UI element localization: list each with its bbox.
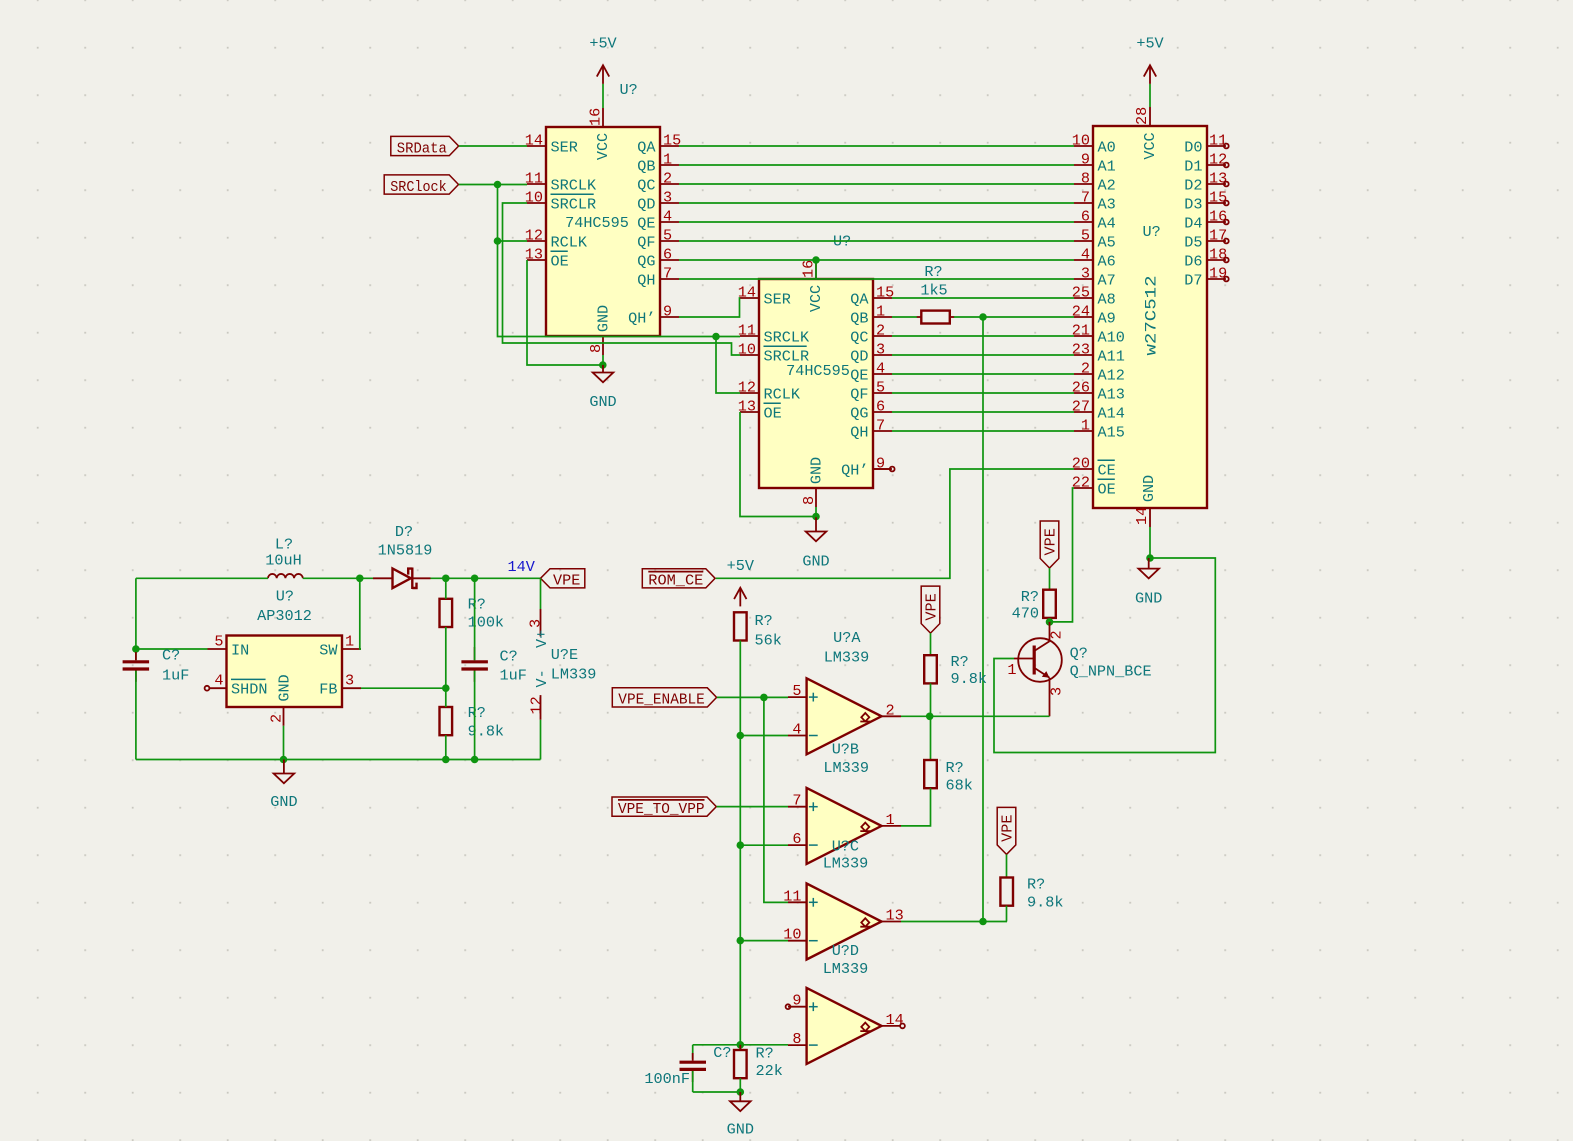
svg-text:A15: A15 <box>1098 423 1125 441</box>
svg-text:1: 1 <box>663 151 672 169</box>
svg-text:QE: QE <box>850 366 868 384</box>
svg-text:4: 4 <box>214 672 223 690</box>
wire branch to U?C + <box>764 697 788 902</box>
wire Cout bottom <box>474 671 476 760</box>
svg-text:C?: C? <box>713 1044 731 1062</box>
net label VPE (RB) <box>997 807 1017 854</box>
svg-text:VCC: VCC <box>594 133 612 160</box>
power +5V R56k top <box>727 557 755 606</box>
svg-text:20: 20 <box>1072 455 1090 473</box>
svg-text:D1: D1 <box>1184 157 1202 175</box>
junction A9 node <box>979 313 987 321</box>
svg-text:C?: C? <box>500 648 518 666</box>
svg-text:10: 10 <box>738 341 756 359</box>
wire R22k leads <box>739 1045 741 1092</box>
svg-text:3: 3 <box>1048 687 1066 696</box>
svg-text:LM339: LM339 <box>823 759 869 777</box>
svg-text:U?D: U?D <box>832 942 859 960</box>
svg-text:Q?: Q? <box>1070 645 1088 663</box>
svg-text:1: 1 <box>345 633 354 651</box>
svg-text:3: 3 <box>1081 265 1090 283</box>
svg-text:QF: QF <box>850 385 868 403</box>
svg-text:14: 14 <box>1133 507 1151 525</box>
svg-text:A9: A9 <box>1098 309 1116 327</box>
svg-text:VPE: VPE <box>999 815 1017 842</box>
wire cap to R22k gnd <box>693 1091 741 1093</box>
svg-text:R?: R? <box>946 759 964 777</box>
wire A3 bus <box>679 202 1074 204</box>
net label VPE_TO_VPP <box>612 797 716 818</box>
junction RCLK branch <box>494 237 502 245</box>
svg-text:25: 25 <box>1072 284 1090 302</box>
junction emitter node <box>926 713 934 721</box>
svg-text:QA: QA <box>637 138 656 156</box>
svg-text:5: 5 <box>876 379 885 397</box>
capacitor C? 1uF (output) <box>461 647 526 685</box>
wire RCLK U1 <box>498 240 528 242</box>
svg-text:D5: D5 <box>1184 233 1202 251</box>
ground R22k GND <box>727 1092 754 1139</box>
svg-text:D0: D0 <box>1184 138 1202 156</box>
wire diode out <box>431 577 541 579</box>
svg-text:VCC: VCC <box>807 285 825 312</box>
resistor R? 9.8k L <box>440 704 505 741</box>
svg-text:3: 3 <box>527 619 545 628</box>
svg-text:12: 12 <box>525 227 543 245</box>
U2 QH' no-connect <box>873 467 895 472</box>
svg-text:R?: R? <box>755 612 773 630</box>
svg-text:7: 7 <box>876 417 885 435</box>
svg-text:SRCLK: SRCLK <box>764 328 810 346</box>
net label VPE (RA) <box>921 586 941 633</box>
wire L to diode <box>303 577 373 579</box>
net label SRClock <box>384 175 458 196</box>
svg-text:R?: R? <box>756 1045 774 1063</box>
svg-text:OE: OE <box>1098 480 1116 498</box>
svg-text:SER: SER <box>551 138 578 156</box>
wire A12 bus <box>892 373 1074 375</box>
wire AP GND stub <box>283 726 285 760</box>
svg-text:RCLK: RCLK <box>551 233 588 251</box>
svg-text:1uF: 1uF <box>162 667 189 685</box>
svg-text:1: 1 <box>1081 417 1090 435</box>
svg-text:10: 10 <box>525 189 543 207</box>
svg-text:ROM_CE: ROM_CE <box>648 572 703 590</box>
svg-text:SHDN: SHDN <box>231 681 267 699</box>
svg-text:A1: A1 <box>1098 157 1116 175</box>
svg-text:14: 14 <box>738 284 756 302</box>
wire VPE_TO_VPP to + <box>717 806 788 808</box>
junction T3 minus <box>737 937 745 945</box>
svg-text:QC: QC <box>637 176 655 194</box>
svg-text:C?: C? <box>162 647 180 665</box>
wire A6 bus <box>679 259 1074 261</box>
svg-text:SRCLR: SRCLR <box>551 195 597 213</box>
svg-text:9: 9 <box>1081 151 1090 169</box>
junction FB node <box>442 684 450 692</box>
junction C top <box>471 575 479 583</box>
ground AP3012 GND <box>270 760 297 812</box>
svg-text:8: 8 <box>587 344 605 353</box>
wire ROM VCC <box>1149 84 1151 107</box>
svg-text:SRClock: SRClock <box>390 178 447 196</box>
svg-text:IN: IN <box>231 641 249 659</box>
svg-text:6: 6 <box>792 830 801 848</box>
svg-text:9.8k: 9.8k <box>951 670 987 688</box>
svg-text:2: 2 <box>1081 360 1090 378</box>
junction U2 VCC tap <box>812 256 820 264</box>
svg-text:2: 2 <box>876 322 885 340</box>
wire U1 VCC <box>602 84 604 108</box>
wire R9.8kB to out D <box>1006 906 1008 922</box>
svg-text:V-: V- <box>533 669 551 687</box>
junction T1 minus <box>737 732 745 740</box>
wire SRCLK chain down <box>498 185 741 337</box>
svg-text:5: 5 <box>792 682 801 700</box>
wire R9.8kL bot <box>445 735 447 759</box>
svg-text:AP3012: AP3012 <box>257 607 312 625</box>
wire A7 bus <box>679 278 1074 280</box>
wire U2 VCC stub <box>815 260 817 279</box>
svg-text:6: 6 <box>663 246 672 264</box>
wire R1k5 to ROM A9 <box>954 316 1074 318</box>
svg-text:6: 6 <box>876 398 885 416</box>
svg-text:A0: A0 <box>1098 138 1116 156</box>
svg-text:U?B: U?B <box>832 741 859 759</box>
junction ROM GND <box>1146 554 1154 562</box>
label U?A <box>824 629 870 667</box>
net label ROM_CE <box>642 569 715 590</box>
svg-text:LM339: LM339 <box>551 666 597 684</box>
resistor R? 56k <box>734 612 782 650</box>
svg-text:470: 470 <box>1012 605 1039 623</box>
net label SRData <box>391 136 459 157</box>
op-amp U?D cmp LM339 <box>786 988 905 1064</box>
svg-text:U?A: U?A <box>833 629 861 647</box>
svg-text:R?: R? <box>468 596 486 614</box>
net label VPE (R470) <box>1040 521 1060 568</box>
op-amp U?B cmp LM339 <box>788 788 901 864</box>
svg-text:OE: OE <box>764 404 782 422</box>
wire R100k leads <box>445 578 447 599</box>
svg-text:U?: U? <box>1143 223 1161 241</box>
svg-text:6: 6 <box>1081 208 1090 226</box>
wire A11 bus <box>892 354 1074 356</box>
svg-text:100nF: 100nF <box>644 1070 690 1088</box>
svg-text:26: 26 <box>1072 379 1090 397</box>
svg-text:+5V: +5V <box>589 35 617 53</box>
wire R100k bot <box>445 627 447 688</box>
junction AP GND <box>280 756 288 764</box>
svg-text:R?: R? <box>468 704 486 722</box>
svg-text:VPE: VPE <box>923 593 941 620</box>
transistor Q? Q_NPN_BCE <box>1007 622 1151 716</box>
svg-text:SRData: SRData <box>397 139 447 157</box>
svg-text:LM339: LM339 <box>823 960 869 978</box>
svg-text:24: 24 <box>1072 303 1090 321</box>
svg-text:4: 4 <box>876 360 885 378</box>
wire A8 bus <box>892 297 1074 299</box>
svg-text:22k: 22k <box>756 1062 783 1080</box>
wire R470 to collector node <box>1049 618 1051 622</box>
wire R56k down chain <box>739 641 741 1045</box>
svg-text:9: 9 <box>663 303 672 321</box>
svg-text:A3: A3 <box>1098 195 1116 213</box>
wire VPE to R9.8kA <box>930 633 932 655</box>
wire A10 bus <box>892 335 1074 337</box>
svg-text:A5: A5 <box>1098 233 1116 251</box>
wire U2 OE to GND <box>740 412 816 517</box>
wire to U?B - <box>740 844 788 846</box>
svg-text:8: 8 <box>1081 170 1090 188</box>
svg-text:2: 2 <box>663 170 672 188</box>
svg-text:5: 5 <box>663 227 672 245</box>
svg-text:RCLK: RCLK <box>764 385 801 403</box>
svg-text:12: 12 <box>528 696 546 714</box>
IC U? w27C512 EPROM <box>1072 107 1229 527</box>
svg-text:7: 7 <box>663 265 672 283</box>
resistor R? 1k5 <box>917 263 955 324</box>
junction SRClock <box>494 181 502 189</box>
svg-text:D6: D6 <box>1184 252 1202 270</box>
svg-text:VPE_TO_VPP: VPE_TO_VPP <box>618 800 705 818</box>
junction R22k gnd <box>737 1088 745 1096</box>
svg-text:27: 27 <box>1072 398 1090 416</box>
junction T2 minus <box>737 841 745 849</box>
svg-text:5: 5 <box>214 633 223 651</box>
svg-text:LM339: LM339 <box>823 855 869 873</box>
label U?D <box>823 942 869 978</box>
svg-text:VPE_ENABLE: VPE_ENABLE <box>618 691 705 709</box>
svg-text:56k: 56k <box>755 632 782 650</box>
svg-text:1: 1 <box>876 303 885 321</box>
diode D? 1N5819 <box>373 523 432 589</box>
wire Cout top <box>474 578 476 660</box>
resistor R? 470 <box>1012 588 1056 623</box>
svg-text:9.8k: 9.8k <box>1027 893 1063 911</box>
svg-text:LM339: LM339 <box>824 649 870 667</box>
wire U2 RCLK branch <box>716 337 740 394</box>
svg-text:4: 4 <box>792 721 801 739</box>
svg-text:100k: 100k <box>468 614 504 632</box>
wire SW riser <box>360 578 361 649</box>
svg-text:3: 3 <box>345 672 354 690</box>
wire out D <box>901 921 1007 923</box>
svg-text:14: 14 <box>525 132 543 150</box>
ground ROM GND <box>1135 558 1162 608</box>
wire U2 GND down <box>815 507 817 517</box>
svg-text:w27C512: w27C512 <box>1143 276 1161 356</box>
svg-text:74HC595: 74HC595 <box>565 214 629 232</box>
svg-text:VPE: VPE <box>1042 528 1060 555</box>
svg-text:D3: D3 <box>1184 195 1202 213</box>
junction R9.8kL gnd <box>442 756 450 764</box>
junction R100k top <box>442 575 450 583</box>
wire to U?A - <box>740 735 788 737</box>
svg-text:GND: GND <box>802 553 829 571</box>
svg-text:A10: A10 <box>1098 328 1125 346</box>
inductor L? 10uH <box>265 536 303 579</box>
junction Cout gnd <box>471 756 479 764</box>
junction U2 SRCLK branch <box>712 333 720 341</box>
svg-text:A7: A7 <box>1098 271 1116 289</box>
svg-text:68k: 68k <box>946 777 973 795</box>
IC U? U2 74HC595 <box>738 233 894 508</box>
resistor R? 22k <box>734 1045 783 1081</box>
wire U1 OE to GND <box>527 260 603 365</box>
wire Cin bottom <box>135 671 137 760</box>
svg-text:A4: A4 <box>1098 214 1116 232</box>
capacitor C? 1uF (input) <box>123 647 190 685</box>
wire VPE to R470 <box>1049 568 1051 590</box>
svg-text:A11: A11 <box>1098 347 1125 365</box>
junction VPE_ENABLE branch <box>760 694 768 702</box>
svg-text:21: 21 <box>1072 322 1090 340</box>
svg-text:10: 10 <box>1072 132 1090 150</box>
wire IN wire <box>136 648 208 650</box>
svg-text:U?C: U?C <box>832 838 859 856</box>
svg-text:9.8k: 9.8k <box>468 723 504 741</box>
wire A0 bus <box>679 145 1074 147</box>
op-amp U?C cmp LM339 <box>783 884 903 960</box>
wire A15 bus <box>892 430 1074 432</box>
svg-text:VPE: VPE <box>553 571 580 589</box>
wire A1 bus <box>679 164 1074 166</box>
svg-text:4: 4 <box>663 208 672 226</box>
IC U? AP3012 <box>205 588 361 726</box>
wire outA to R68k <box>930 716 932 760</box>
svg-text:U?E: U?E <box>551 646 578 664</box>
svg-text:VCC: VCC <box>1141 132 1159 159</box>
svg-text:R?: R? <box>1027 876 1045 894</box>
svg-text:GND: GND <box>1140 475 1158 502</box>
svg-text:23: 23 <box>1072 341 1090 359</box>
svg-text:U?: U? <box>620 81 638 99</box>
label C? (100nF) <box>713 1044 731 1062</box>
wire GND loop to Q1 base <box>994 558 1215 753</box>
wire A9 to comparator D out <box>982 317 984 922</box>
svg-text:SRCLK: SRCLK <box>551 176 597 194</box>
svg-text:15: 15 <box>876 284 894 302</box>
svg-text:GND: GND <box>1135 590 1162 608</box>
svg-text:QH’: QH’ <box>628 309 655 327</box>
svg-text:74HC595: 74HC595 <box>786 362 850 380</box>
svg-text:1: 1 <box>886 811 895 829</box>
wire SRClock to U1 SRCLK <box>459 184 527 186</box>
resistor R? 9.8k B <box>1000 876 1063 912</box>
svg-text:GND: GND <box>589 393 616 411</box>
wire U2 QB to R1k5 <box>892 316 917 318</box>
svg-text:2: 2 <box>1048 630 1066 639</box>
svg-text:10uH: 10uH <box>265 552 301 570</box>
wire U1 QH' to U2 SER <box>679 298 740 317</box>
wire R9.8kA to out A <box>930 683 932 716</box>
svg-text:OE: OE <box>551 252 569 270</box>
svg-text:5: 5 <box>1081 227 1090 245</box>
wire to U?D - <box>693 1044 788 1046</box>
wire U1 GND stub <box>602 355 604 365</box>
resistor R? 100k <box>440 596 505 632</box>
svg-text:2: 2 <box>886 701 895 719</box>
svg-text:1k5: 1k5 <box>920 282 947 300</box>
label U?B <box>823 741 869 778</box>
svg-text:QG: QG <box>637 252 655 270</box>
svg-text:R?: R? <box>1021 588 1039 606</box>
ground U1 GND <box>589 365 616 411</box>
svg-text:8: 8 <box>800 496 818 505</box>
junction collector node <box>1046 618 1054 626</box>
wire A5 bus <box>679 240 1074 242</box>
net label VPE_ENABLE <box>612 688 716 709</box>
wire R9.8kL top <box>445 688 447 707</box>
svg-text:QH: QH <box>637 271 655 289</box>
svg-text:11: 11 <box>525 170 543 188</box>
svg-text:8: 8 <box>792 1030 801 1048</box>
junction out D node <box>979 918 987 926</box>
svg-text:1uF: 1uF <box>500 667 527 685</box>
junction U1 GND <box>599 361 607 369</box>
svg-text:GND: GND <box>595 305 613 332</box>
svg-text:9: 9 <box>792 992 801 1010</box>
svg-text:U?: U? <box>276 588 294 606</box>
ground U2 GND <box>802 517 829 570</box>
power +5V ROM VCC <box>1136 35 1164 84</box>
wire VPE_ENABLE to + <box>717 696 788 698</box>
svg-text:7: 7 <box>792 792 801 810</box>
svg-text:D7: D7 <box>1184 271 1202 289</box>
svg-text:QA: QA <box>850 290 869 308</box>
label U?C <box>823 838 869 873</box>
wire ROM_CE to CE pin <box>716 469 1074 578</box>
svg-text:A6: A6 <box>1098 252 1116 270</box>
wire Vin top <box>136 577 268 579</box>
svg-text:16: 16 <box>587 108 605 126</box>
svg-text:QH: QH <box>850 423 868 441</box>
svg-text:R?: R? <box>951 653 969 671</box>
wire to U?C - <box>740 940 788 942</box>
svg-text:QD: QD <box>637 195 655 213</box>
svg-text:QB: QB <box>850 309 868 327</box>
svg-text:Q_NPN_BCE: Q_NPN_BCE <box>1070 663 1152 681</box>
power +5V U1 VCC <box>589 35 617 84</box>
svg-text:D4: D4 <box>1184 214 1202 232</box>
svg-text:CE: CE <box>1098 461 1116 479</box>
net 14V / VPE <box>508 558 585 589</box>
svg-text:GND: GND <box>270 793 297 811</box>
wire VPE to R9.8kB <box>1006 854 1008 877</box>
svg-text:R?: R? <box>924 263 942 281</box>
svg-text:QB: QB <box>637 157 655 175</box>
svg-text:7: 7 <box>1081 189 1090 207</box>
svg-text:28: 28 <box>1133 107 1151 125</box>
svg-text:GND: GND <box>276 674 294 701</box>
wire ROM GND down <box>1149 527 1151 558</box>
junction T4 minus <box>737 1041 745 1049</box>
svg-text:A14: A14 <box>1098 404 1125 422</box>
svg-text:A2: A2 <box>1098 176 1116 194</box>
wire bottom rail <box>136 759 541 761</box>
svg-text:12: 12 <box>738 379 756 397</box>
junction Cin/IN <box>132 645 140 653</box>
wire left rail <box>135 578 137 660</box>
svg-text:QC: QC <box>850 328 868 346</box>
wire ROM OE to collector <box>1050 488 1075 622</box>
svg-text:4: 4 <box>1081 246 1090 264</box>
IC U? U1 74HC595 <box>525 81 681 355</box>
wire U1 SRCLR chain <box>503 203 741 355</box>
svg-text:QE: QE <box>637 214 655 232</box>
svg-text:GND: GND <box>808 457 826 484</box>
